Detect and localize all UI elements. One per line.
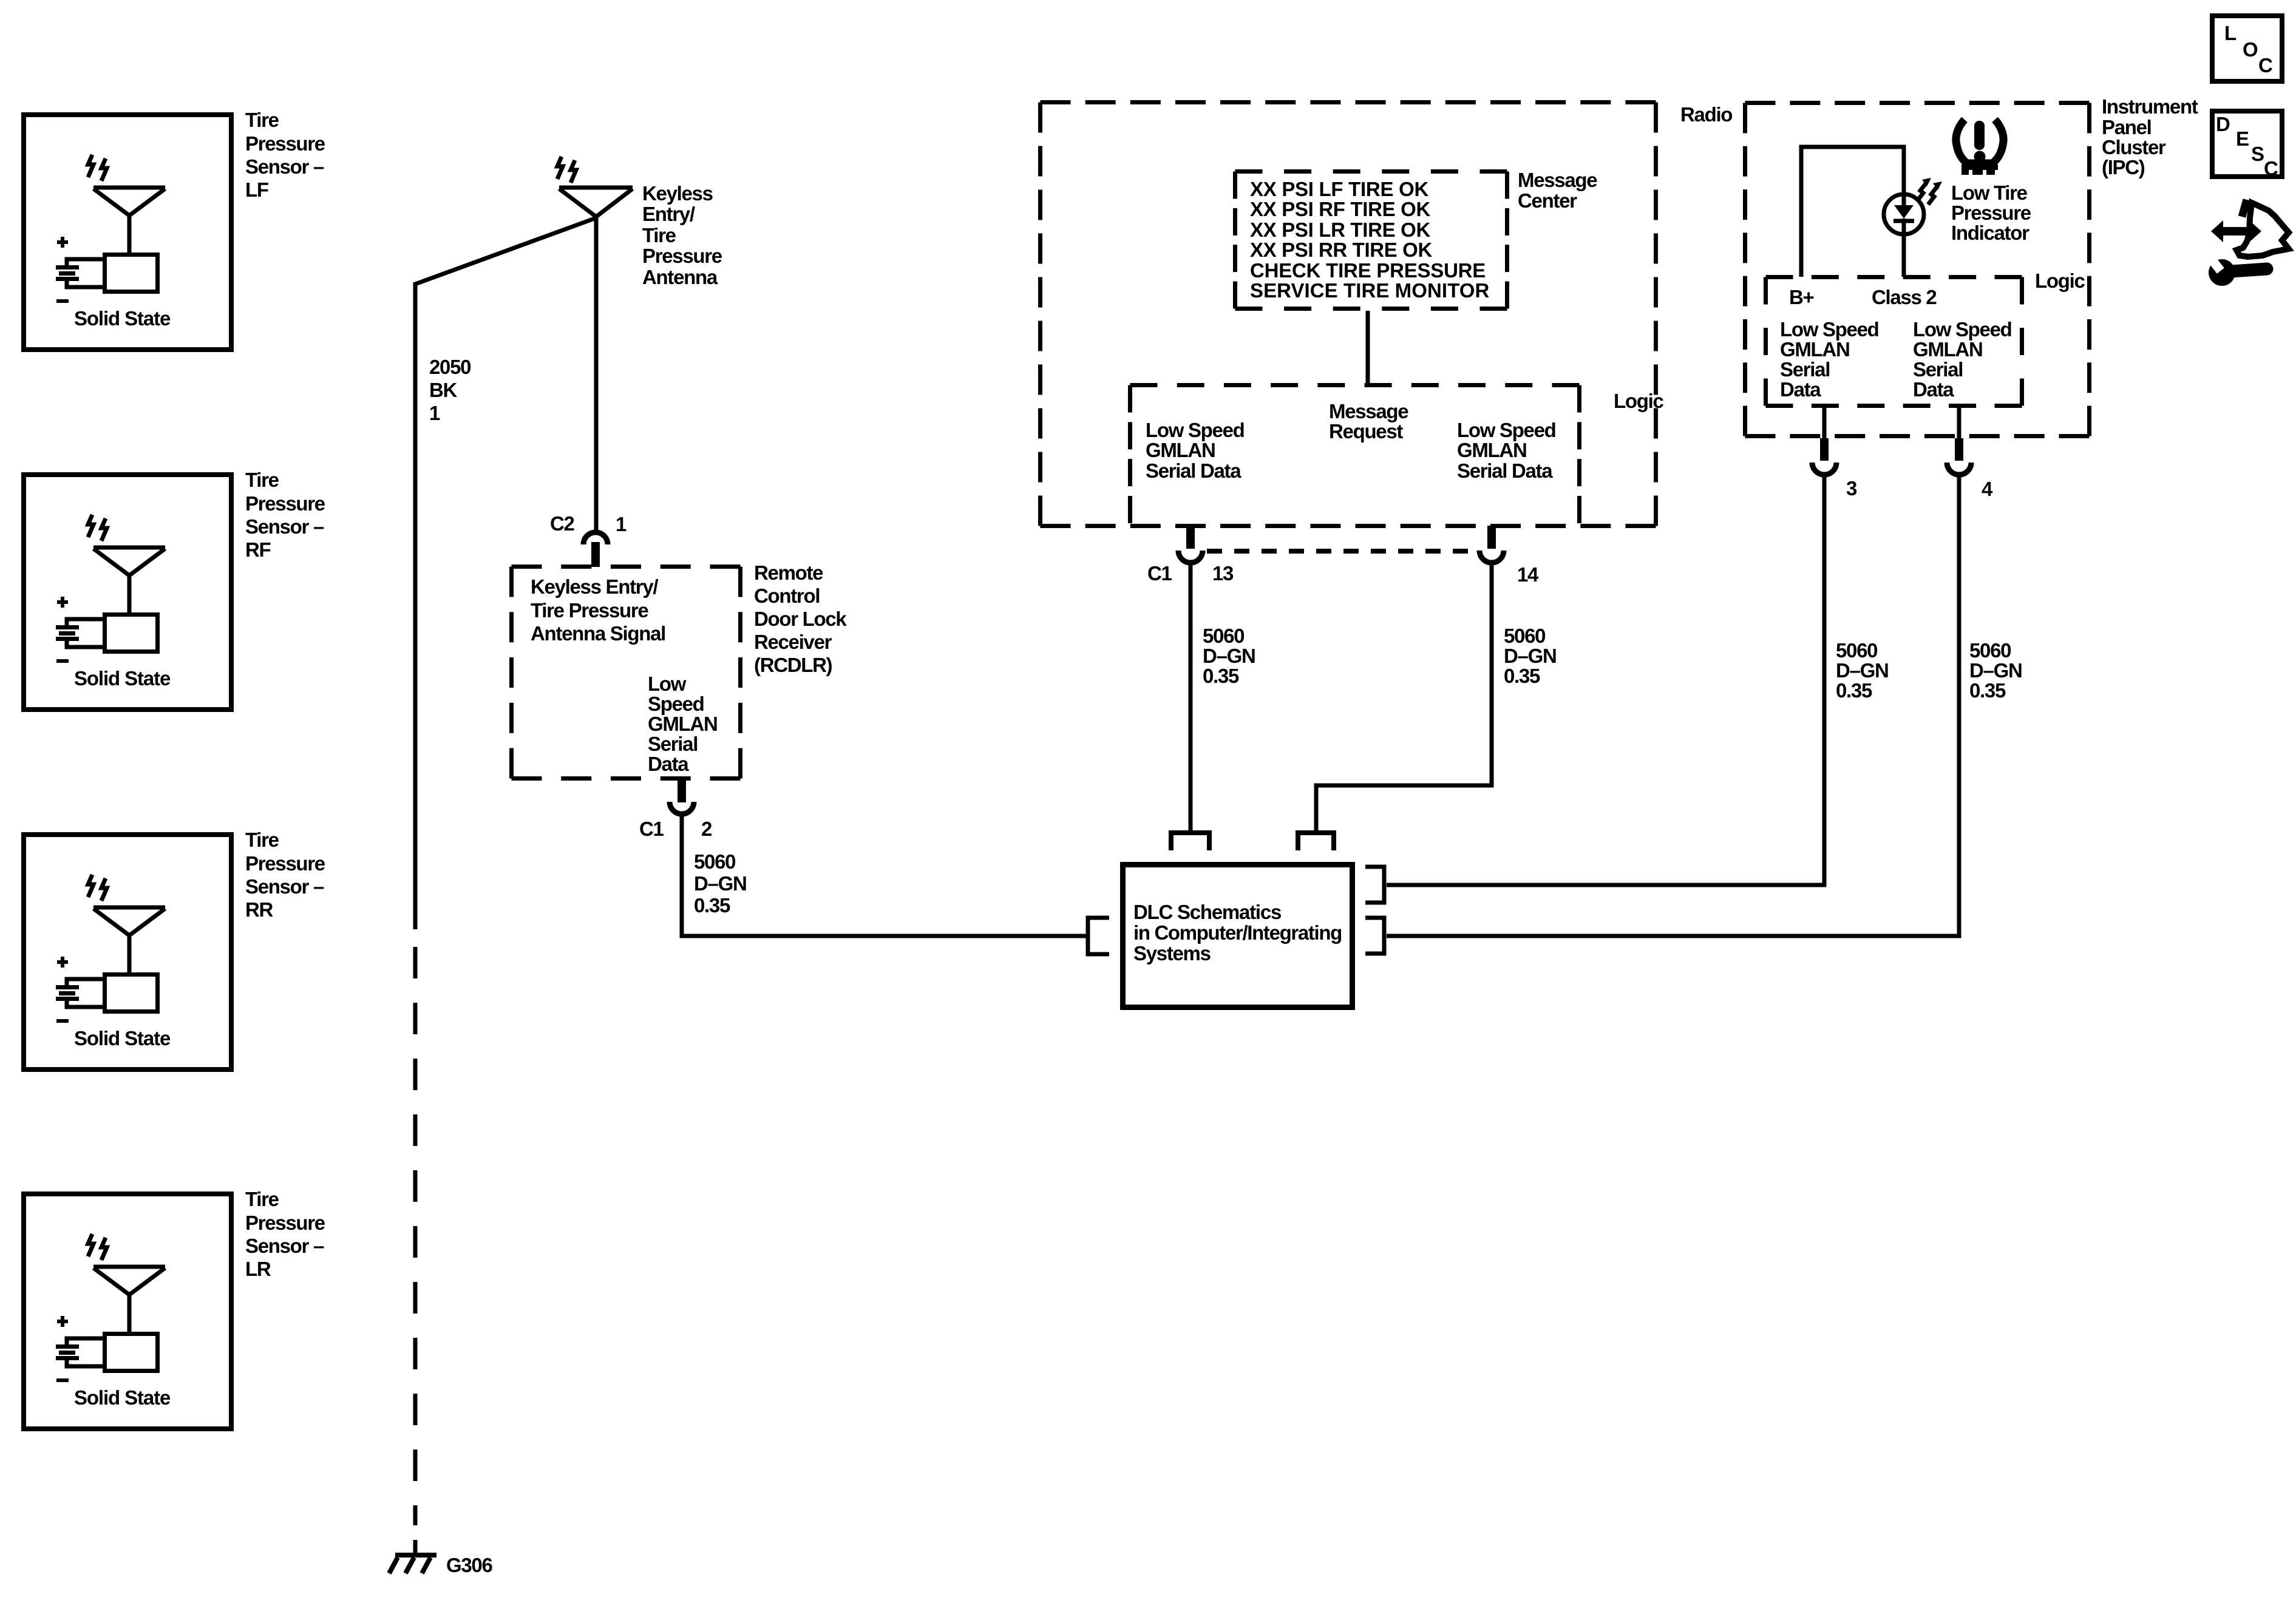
svg-text:D–GN: D–GN (1836, 659, 1889, 682)
wire pin 14 to DLC (1316, 563, 1492, 830)
svg-text:XX PSI RR TIRE OK: XX PSI RR TIRE OK (1250, 239, 1432, 261)
sensor body rect LF (105, 255, 158, 292)
svg-text:Sensor –: Sensor – (245, 875, 324, 898)
DLC text (1133, 901, 1342, 964)
svg-text:C1: C1 (1147, 562, 1172, 585)
wire message center to logic (1366, 311, 1370, 385)
svg-text:5060: 5060 (1504, 625, 1545, 647)
svg-text:Serial: Serial (1913, 358, 1963, 381)
label Low Speed GMLAN Serial Data (IPC right) (1913, 318, 2012, 401)
svg-text:C: C (2258, 54, 2272, 76)
svg-text:LF: LF (245, 178, 268, 201)
svg-text:Door Lock: Door Lock (754, 608, 847, 630)
LOC icon box (2212, 16, 2282, 81)
wire vertical dashed 2050 BK (413, 947, 418, 1525)
svg-text:Control: Control (754, 585, 820, 607)
IPC Logic box (1766, 275, 2022, 279)
svg-text:Solid State: Solid State (74, 307, 171, 330)
svg-text:RF: RF (245, 538, 271, 561)
svg-text:5060: 5060 (1203, 625, 1244, 647)
label Remote Control Door Lock Receiver (RCDLR) (754, 561, 847, 676)
minus sign sensor LR (56, 1378, 69, 1382)
DLC top stub left (1171, 833, 1209, 850)
minus sign sensor RR (56, 1019, 69, 1023)
svg-text:RR: RR (245, 898, 274, 921)
diagnostic icon wrench (2208, 257, 2267, 286)
svg-text:BK: BK (429, 379, 458, 401)
battery sensor RR (56, 979, 103, 1007)
svg-text:1: 1 (429, 402, 440, 424)
svg-text:Serial: Serial (648, 733, 698, 755)
svg-text:O: O (2243, 38, 2258, 61)
Radio box (1041, 100, 1656, 104)
svg-text:Keyless: Keyless (642, 182, 713, 205)
svg-text:Pressure: Pressure (245, 852, 325, 875)
label Tire Pressure Sensor - LR (245, 1188, 325, 1280)
battery sensor LF (56, 259, 103, 287)
Instrument Panel Cluster box (1745, 101, 2090, 105)
svg-text:Tire Pressure: Tire Pressure (531, 599, 648, 622)
wire antenna to ground diagonal (415, 218, 596, 284)
svg-text:Sensor –: Sensor – (245, 1235, 324, 1257)
DLC right tab lower (1365, 918, 1384, 954)
DESC icon box (2212, 111, 2282, 180)
svg-text:Message: Message (1518, 169, 1597, 191)
label 5060 D-GN 0.35 (pin3 wire) (1836, 639, 1889, 702)
connector C1 pin 13 (1178, 526, 1203, 563)
svg-text:Instrument: Instrument (2102, 95, 2198, 118)
svg-text:D–GN: D–GN (694, 872, 747, 895)
connector C1 pin 2 (670, 778, 694, 814)
antenna sensor RR (93, 907, 165, 973)
message center text lines (1250, 178, 1489, 302)
svg-text:Tire: Tire (245, 829, 279, 851)
svg-text:Systems: Systems (1133, 942, 1211, 964)
svg-text:Serial Data: Serial Data (1146, 459, 1241, 482)
label 5060 D-GN 0.35 (pin14 wire) (1504, 625, 1557, 687)
label 2050 BK 1 (429, 356, 470, 424)
DLC right tab upper (1365, 867, 1384, 903)
svg-text:5060: 5060 (1969, 639, 2011, 662)
svg-text:Data: Data (1780, 378, 1821, 401)
svg-text:Tire: Tire (642, 224, 676, 246)
svg-text:Low Speed: Low Speed (1146, 419, 1245, 441)
radio-wave marks keyless antenna (557, 157, 576, 183)
wire RCDLR pin2 to DLC (682, 814, 1086, 936)
label Low Tire Pressure Indicator (1951, 181, 2031, 244)
sensor body rect RF (105, 615, 158, 652)
svg-text:Data: Data (1913, 378, 1954, 401)
Keyless Entry / Tire Pressure antenna symbol (559, 188, 633, 532)
label Tire Pressure Sensor - LF (245, 109, 325, 201)
svg-text:Solid State: Solid State (74, 1386, 171, 1409)
minus sign sensor LF (56, 299, 69, 303)
connector C2 pin 1 (583, 532, 608, 567)
label 5060 D-GN 0.35 (RCDLR wire) (694, 850, 747, 917)
label Keyless Entry/Tire Pressure Antenna Signal (531, 575, 665, 645)
svg-text:Antenna Signal: Antenna Signal (531, 622, 665, 645)
svg-text:Speed: Speed (648, 693, 704, 715)
svg-text:S: S (2251, 143, 2264, 165)
connector C1 pin 14 (1479, 526, 1504, 563)
svg-text:XX PSI LR TIRE OK: XX PSI LR TIRE OK (1250, 219, 1430, 241)
svg-text:LR: LR (245, 1258, 271, 1280)
label 5060 D-GN 0.35 (pin13 wire) (1203, 625, 1255, 687)
sensor body rect RR (105, 975, 158, 1012)
svg-text:Pressure: Pressure (245, 132, 325, 155)
svg-text:XX PSI RF TIRE OK: XX PSI RF TIRE OK (1250, 198, 1430, 220)
svg-text:Logic: Logic (2035, 269, 2085, 292)
plus sign sensor LF (57, 237, 68, 248)
svg-text:14: 14 (1517, 563, 1539, 586)
svg-text:Low Speed: Low Speed (1780, 318, 1879, 341)
svg-text:1: 1 (616, 513, 627, 535)
DLC Schematics box (1123, 865, 1353, 1008)
svg-text:0.35: 0.35 (1969, 679, 2006, 702)
plus sign sensor LR (57, 1316, 68, 1327)
radio-wave marks sensor LR (88, 1234, 107, 1260)
minus sign sensor RF (56, 659, 69, 663)
svg-text:(RCDLR): (RCDLR) (754, 654, 832, 676)
svg-text:Message: Message (1329, 400, 1408, 422)
Message Center box (1235, 169, 1507, 174)
svg-text:Antenna: Antenna (642, 266, 718, 288)
label Tire Pressure Sensor - RR (245, 829, 325, 921)
svg-text:G306: G306 (446, 1554, 492, 1576)
svg-text:in Computer/Integrating: in Computer/Integrating (1133, 921, 1342, 944)
label Message Center (1518, 169, 1597, 212)
label 5060 D-GN 0.35 (pin4 wire) (1969, 639, 2022, 702)
svg-text:GMLAN: GMLAN (1146, 439, 1215, 461)
radio-wave marks sensor RF (88, 515, 107, 541)
svg-text:GMLAN: GMLAN (1913, 338, 1982, 361)
svg-text:Entry/: Entry/ (642, 203, 695, 225)
diagnostic icon double arrow (2211, 220, 2261, 242)
svg-text:XX PSI LF TIRE OK: XX PSI LF TIRE OK (1250, 178, 1428, 200)
radio-wave marks sensor LF (88, 155, 107, 181)
svg-text:C: C (2264, 157, 2278, 180)
svg-text:Tire: Tire (245, 1188, 279, 1210)
svg-text:Serial: Serial (1780, 358, 1830, 381)
sensor body rect LR (105, 1334, 158, 1371)
svg-text:Solid State: Solid State (74, 1027, 171, 1049)
Tire Pressure Sensor - RF box (24, 475, 231, 710)
battery sensor RF (56, 619, 103, 647)
svg-text:B+: B+ (1789, 286, 1814, 308)
svg-text:Sensor –: Sensor – (245, 515, 324, 538)
svg-text:4: 4 (1982, 478, 1993, 500)
svg-text:0.35: 0.35 (694, 894, 730, 917)
svg-text:E: E (2236, 127, 2249, 150)
wire vertical solid 2050 BK (413, 282, 418, 929)
wire B+ to LED loop (1801, 147, 1904, 277)
svg-text:Tire: Tire (245, 469, 279, 491)
svg-text:Serial Data: Serial Data (1457, 459, 1553, 482)
label Low Speed GMLAN Serial Data (IPC left) (1780, 318, 1879, 401)
svg-text:D: D (2216, 113, 2230, 135)
svg-text:Low Speed: Low Speed (1457, 419, 1556, 441)
svg-text:SERVICE TIRE MONITOR: SERVICE TIRE MONITOR (1250, 279, 1489, 302)
connector pin 4 (1947, 405, 1971, 475)
radio-wave marks sensor RR (88, 875, 107, 901)
antenna sensor LF (93, 188, 165, 253)
svg-text:Receiver: Receiver (754, 631, 832, 653)
svg-text:Indicator: Indicator (1951, 222, 2029, 244)
wire DLC to IPC pin 3 (1387, 475, 1824, 885)
Tire Pressure Sensor - LR box (24, 1194, 231, 1429)
low tire pressure warning icon (1956, 120, 2003, 175)
label Keyless Entry/Tire Pressure Antenna (642, 182, 722, 288)
label Low Speed GMLAN Serial Data (radio right) (1457, 419, 1556, 482)
wire pin 13 to DLC (1189, 563, 1193, 830)
svg-text:(IPC): (IPC) (2102, 156, 2145, 178)
svg-text:C2: C2 (550, 512, 575, 535)
svg-text:Center: Center (1518, 189, 1577, 212)
svg-text:Data: Data (648, 753, 689, 775)
svg-text:Panel: Panel (2102, 116, 2152, 138)
svg-text:Remote: Remote (754, 561, 823, 584)
svg-text:D–GN: D–GN (1504, 645, 1557, 667)
connector pin 3 (1812, 405, 1836, 475)
Tire Pressure Sensor - LF box (24, 115, 231, 350)
svg-text:GMLAN: GMLAN (648, 713, 717, 735)
svg-text:Pressure: Pressure (245, 1212, 325, 1234)
svg-text:Request: Request (1329, 420, 1403, 442)
svg-text:0.35: 0.35 (1203, 665, 1239, 687)
svg-text:0.35: 0.35 (1504, 665, 1540, 687)
svg-text:Class 2: Class 2 (1872, 286, 1937, 308)
svg-text:2050: 2050 (429, 356, 470, 378)
svg-text:Pressure: Pressure (245, 492, 325, 515)
label Low Speed GMLAN Serial Data (RCDLR) (648, 673, 717, 775)
svg-text:GMLAN: GMLAN (1780, 338, 1849, 361)
svg-text:Pressure: Pressure (1951, 202, 2031, 224)
svg-text:GMLAN: GMLAN (1457, 439, 1526, 461)
svg-text:D–GN: D–GN (1969, 659, 2022, 682)
plus sign sensor RF (57, 597, 68, 608)
ground G306 (389, 1540, 436, 1573)
svg-text:5060: 5060 (694, 850, 735, 873)
svg-text:Low: Low (648, 673, 687, 695)
svg-text:Sensor –: Sensor – (245, 155, 324, 178)
svg-text:5060: 5060 (1836, 639, 1877, 662)
svg-text:D–GN: D–GN (1203, 645, 1255, 667)
RCDLR box (512, 564, 741, 569)
label Instrument Panel Cluster (IPC) (2102, 95, 2198, 178)
antenna sensor RF (93, 547, 165, 613)
svg-text:Low Tire: Low Tire (1951, 181, 2028, 204)
svg-text:L: L (2224, 22, 2237, 44)
svg-text:CHECK TIRE PRESSURE: CHECK TIRE PRESSURE (1250, 259, 1485, 282)
diagnostic icon outline shape (2237, 200, 2289, 257)
svg-text:Cluster: Cluster (2102, 136, 2166, 158)
svg-text:Solid State: Solid State (74, 667, 171, 690)
antenna sensor LR (93, 1267, 165, 1332)
Radio Logic box (1130, 383, 1580, 387)
Tire Pressure Sensor - RR box (24, 835, 231, 1070)
svg-text:Keyless Entry/: Keyless Entry/ (531, 575, 658, 598)
svg-text:Radio: Radio (1680, 103, 1732, 126)
label Message Request (1329, 400, 1408, 442)
svg-text:C1: C1 (639, 818, 664, 840)
plus sign sensor RR (57, 957, 68, 968)
svg-text:2: 2 (701, 818, 712, 840)
svg-text:DLC Schematics: DLC Schematics (1133, 901, 1281, 923)
label Tire Pressure Sensor - RF (245, 469, 325, 561)
dotted connector line C1 radio (1207, 549, 1475, 554)
DLC top stub right (1298, 833, 1334, 850)
svg-text:3: 3 (1846, 477, 1857, 500)
label Low Speed GMLAN Serial Data (radio left) (1146, 419, 1245, 482)
svg-text:0.35: 0.35 (1836, 679, 1872, 702)
svg-text:13: 13 (1212, 562, 1234, 585)
LED indicator (1884, 194, 1924, 277)
svg-text:Pressure: Pressure (642, 245, 722, 267)
DLC left tab (1088, 918, 1109, 954)
wire DLC to IPC pin 4 (1387, 475, 1959, 936)
svg-text:Low Speed: Low Speed (1913, 318, 2012, 341)
svg-text:Tire: Tire (245, 109, 279, 131)
svg-text:Logic: Logic (1614, 390, 1663, 412)
battery sensor LR (56, 1338, 103, 1366)
LED emission arrows (1917, 178, 1942, 205)
